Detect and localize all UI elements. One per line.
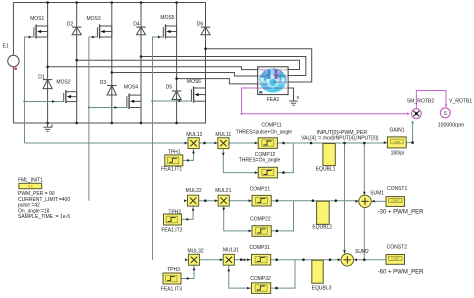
svg-text:D1: D1 (38, 74, 45, 80)
svg-text:SM_ROTB2: SM_ROTB2 (407, 98, 435, 104)
svg-text:100000rpm: 100000rpm (438, 122, 464, 128)
svg-text:D6: D6 (197, 21, 204, 27)
svg-text:COMP11: COMP11 (261, 122, 281, 128)
svg-text:TPH1: TPH1 (168, 149, 181, 155)
svg-text:SUM1: SUM1 (370, 191, 384, 197)
svg-text:COMP21: COMP21 (250, 186, 271, 192)
svg-text:VAL[4] := mod(INPUT[4],INPUT[0: VAL[4] := mod(INPUT[4],INPUT[0]) (301, 135, 379, 141)
svg-text:180/pi: 180/pi (391, 151, 405, 157)
svg-text:FML_INIT1: FML_INIT1 (18, 178, 43, 184)
svg-text:FEA1: FEA1 (267, 97, 280, 103)
svg-text:SUM2: SUM2 (355, 249, 369, 255)
svg-text:EQUBL2: EQUBL2 (312, 224, 332, 230)
svg-text:D5: D5 (166, 85, 173, 91)
svg-text:D2: D2 (67, 21, 74, 27)
svg-text:TPH2: TPH2 (168, 210, 181, 216)
svg-text:MOS5: MOS5 (160, 15, 174, 21)
svg-text:GAIN: GAIN (394, 140, 400, 144)
svg-text:CONST1: CONST1 (387, 186, 408, 192)
svg-text:FEA1.IT2: FEA1.IT2 (161, 227, 182, 233)
svg-text:EQUBL1: EQUBL1 (316, 167, 336, 173)
svg-text:GAIN1: GAIN1 (389, 127, 404, 133)
svg-text:PhaseA: PhaseA (259, 67, 268, 71)
svg-text:D3: D3 (100, 80, 107, 86)
svg-text:ICA: ICA (28, 185, 33, 189)
svg-text:COMP22: COMP22 (250, 216, 271, 222)
svg-text:MOS2: MOS2 (56, 80, 70, 86)
svg-text:MUL11: MUL11 (215, 132, 231, 138)
svg-text:PhaseB_out: PhaseB_out (273, 73, 287, 77)
svg-text:MOS6: MOS6 (187, 79, 201, 85)
svg-text:PhaseA_out: PhaseA_out (273, 67, 287, 71)
svg-text:MOS1: MOS1 (30, 16, 44, 22)
svg-text:COMP32: COMP32 (250, 276, 271, 282)
svg-text:D4: D4 (133, 21, 140, 27)
svg-text:-30 + PWM_PER: -30 + PWM_PER (378, 209, 425, 215)
svg-text:MUL31: MUL31 (223, 247, 239, 253)
svg-text:CONST: CONST (391, 258, 400, 261)
svg-text:MUL22: MUL22 (186, 188, 202, 194)
svg-text:TPH3: TPH3 (167, 267, 180, 273)
svg-text:CONST2: CONST2 (387, 244, 408, 250)
svg-text:THRES=pulse+On_angle: THRES=pulse+On_angle (236, 130, 293, 136)
svg-text:-60 + PWM_PER: -60 + PWM_PER (378, 270, 425, 276)
svg-text:PhaseC_out: PhaseC_out (273, 80, 288, 84)
svg-text:EQUBL3: EQUBL3 (312, 286, 332, 292)
svg-text:COMP31: COMP31 (249, 245, 270, 251)
svg-text:V_ROTB1: V_ROTB1 (449, 98, 472, 104)
svg-text:MOS3: MOS3 (87, 16, 101, 22)
svg-text:MUL12: MUL12 (186, 132, 202, 138)
svg-text:FEA1.IT3: FEA1.IT3 (161, 286, 182, 292)
svg-text:SAMPLE_TIME := 1e-5: SAMPLE_TIME := 1e-5 (18, 214, 70, 220)
svg-text:PhaseC: PhaseC (259, 82, 268, 86)
svg-text:CONST: CONST (391, 200, 400, 203)
svg-text:MUL21: MUL21 (215, 188, 231, 194)
svg-text:THRES=On_angle: THRES=On_angle (239, 157, 281, 163)
svg-text:MOS4: MOS4 (124, 85, 138, 91)
svg-text:MUL32: MUL32 (188, 249, 204, 255)
svg-text:MotorRetur: MotorRetur (259, 86, 272, 90)
svg-text:E1: E1 (3, 44, 9, 50)
svg-text:FEA1.IT1: FEA1.IT1 (161, 167, 182, 173)
svg-text:Return_out: Return_out (274, 86, 287, 90)
svg-text:PhaseB: PhaseB (259, 74, 268, 78)
